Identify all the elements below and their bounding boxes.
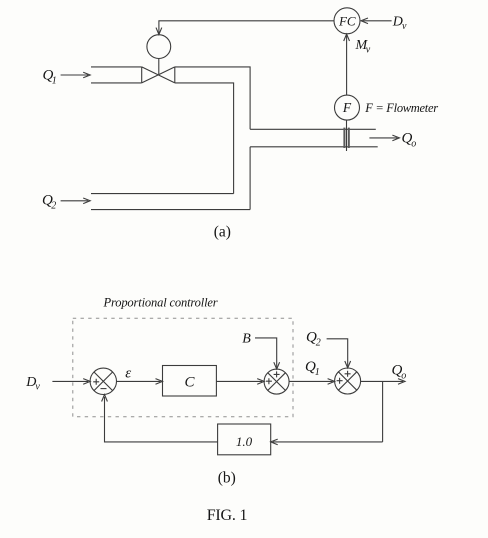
wire S2 to S3 bbox=[289, 380, 333, 382]
wire Mv signal F to FC bbox=[346, 35, 348, 95]
wire flowmeter stem bbox=[346, 120, 348, 151]
svg-text:(a): (a) bbox=[214, 224, 231, 241]
flowmeter sensor bars bbox=[343, 128, 345, 148]
wire pipe from valve top bbox=[175, 67, 250, 129]
wire 1.0 to S1 bbox=[105, 397, 218, 442]
block 1.0 bbox=[218, 424, 271, 455]
svg-text:B: B bbox=[242, 332, 251, 347]
block C bbox=[163, 366, 217, 397]
svg-text:v: v bbox=[366, 45, 371, 56]
svg-text:1: 1 bbox=[52, 76, 57, 87]
svg-text:FC: FC bbox=[338, 13, 356, 28]
node Qo outlet arrow bbox=[369, 137, 397, 139]
flowmeter F circle bbox=[335, 95, 360, 120]
wire Q1 pipe top bbox=[91, 66, 142, 68]
S2 plus top bbox=[274, 371, 280, 377]
svg-text:FIG. 1: FIG. 1 bbox=[207, 507, 248, 524]
valve actuator circle bbox=[147, 35, 171, 59]
wire signal FC to valve actuator bbox=[159, 21, 334, 33]
svg-text:Proportional controller: Proportional controller bbox=[103, 296, 218, 310]
wire B input bbox=[255, 338, 277, 368]
svg-text:v: v bbox=[35, 381, 40, 392]
summer S2 bbox=[264, 369, 289, 394]
node Q2 inlet arrow bbox=[61, 200, 89, 202]
svg-text:F = Flowmeter: F = Flowmeter bbox=[364, 101, 438, 115]
valve V1 bbox=[142, 67, 175, 83]
svg-text:ε: ε bbox=[125, 365, 131, 381]
node Q1 inlet arrow bbox=[61, 74, 89, 76]
wire C to S2 bbox=[216, 380, 262, 382]
svg-text:C: C bbox=[184, 374, 195, 390]
svg-text:o: o bbox=[411, 139, 416, 150]
svg-text:(b): (b) bbox=[218, 470, 236, 487]
wire S3 to output bbox=[361, 380, 403, 382]
wire Q2 pipe top bbox=[91, 193, 234, 195]
wire pipe from valve bottom bbox=[175, 83, 234, 194]
summer S3 bbox=[335, 368, 361, 394]
wire feedback to 1.0 block bbox=[273, 441, 383, 443]
S2 plus left bbox=[266, 378, 272, 384]
svg-text:1: 1 bbox=[315, 367, 320, 378]
svg-text:2: 2 bbox=[51, 201, 56, 212]
svg-text:2: 2 bbox=[316, 337, 321, 348]
wire Q2 input bbox=[327, 339, 348, 367]
node Dv input arrow (b) bbox=[52, 380, 88, 382]
summer S1 bbox=[90, 368, 116, 394]
wire Q2 pipe bottom bbox=[91, 209, 250, 211]
S1 minus sign bbox=[101, 388, 107, 390]
S1 plus sign bbox=[93, 379, 99, 385]
svg-text:v: v bbox=[402, 21, 407, 32]
wire actuator stem bbox=[158, 59, 160, 76]
wire feedback branch down bbox=[382, 381, 384, 442]
wire S1 to C bbox=[117, 380, 161, 382]
svg-text:1.0: 1.0 bbox=[236, 434, 253, 449]
wire Q1 pipe bottom bbox=[91, 82, 142, 84]
S3 plus left bbox=[337, 378, 343, 384]
controller FC circle bbox=[334, 8, 360, 34]
svg-text:F: F bbox=[342, 100, 352, 115]
dashed controller box bbox=[73, 318, 293, 417]
wire pipe right wall lower bbox=[249, 147, 251, 210]
svg-text:o: o bbox=[401, 370, 406, 381]
S3 plus top bbox=[345, 371, 351, 377]
wire outlet pipe top bbox=[250, 128, 376, 130]
node Dv input arrow bbox=[363, 20, 392, 22]
